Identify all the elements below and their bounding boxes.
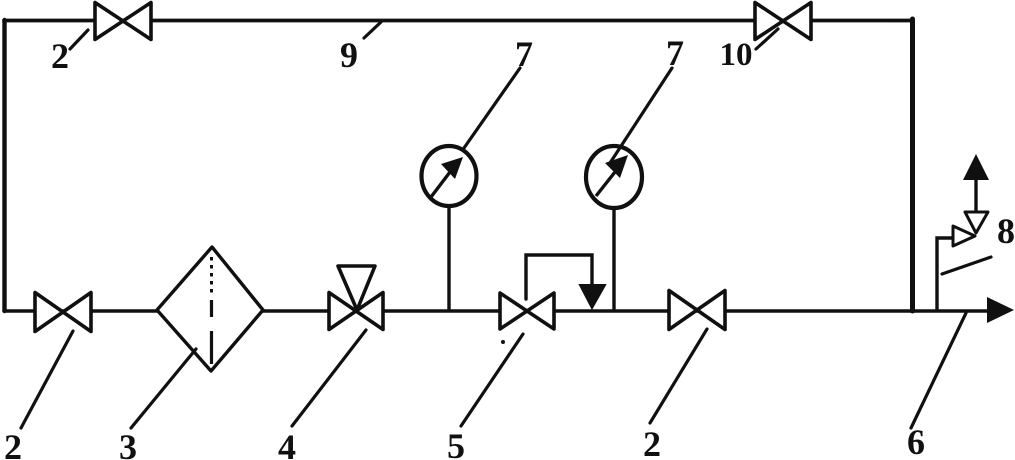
valve 4 (three-way with top triangle) xyxy=(329,266,383,330)
wire: bottom pipe xyxy=(4,309,990,312)
svg-text:9: 9 xyxy=(340,35,358,75)
valve 2 (bottom left) xyxy=(35,293,91,332)
vent outlet arrow (filled, up) xyxy=(963,154,989,180)
leader for label 7a xyxy=(464,68,520,148)
wire: gauge 7a drop line xyxy=(447,206,450,309)
wire: riser to relief vent 8 xyxy=(937,238,953,309)
svg-text:2: 2 xyxy=(51,36,69,76)
leader for label 9 xyxy=(364,22,381,38)
leader for label 8 xyxy=(942,257,991,274)
leader for label 2 bottom-left xyxy=(21,331,73,428)
leader for label 10 xyxy=(756,29,778,49)
wire: gauge 7b drop line xyxy=(612,208,615,309)
wire: top pipe 9 xyxy=(4,19,910,23)
svg-text:4: 4 xyxy=(278,427,296,460)
leader for label 3 xyxy=(131,349,196,428)
leader for label 5 xyxy=(461,334,523,426)
wire: left vertical pipe xyxy=(2,20,6,311)
leader for label 6 xyxy=(911,313,966,428)
outlet arrow 6 (filled, right) xyxy=(987,297,1014,323)
svg-text:7: 7 xyxy=(666,33,684,73)
bypass arrow into pipe xyxy=(580,285,605,308)
valve 2 (bottom right) xyxy=(669,291,725,330)
valve 5 xyxy=(500,293,554,329)
wire: right vertical pipe xyxy=(910,19,915,311)
wire: bypass loop over valve 5 xyxy=(526,255,592,299)
svg-text:3: 3 xyxy=(119,427,137,460)
gauge 7a (pressure gauge) xyxy=(422,146,477,206)
leader for label 4 xyxy=(292,330,366,426)
leader for label 7b xyxy=(610,68,672,163)
valve 2 (top left) xyxy=(95,3,151,40)
svg-text:6: 6 xyxy=(907,422,925,460)
svg-text:2: 2 xyxy=(643,424,661,460)
svg-text:7: 7 xyxy=(515,34,533,74)
svg-text:10: 10 xyxy=(720,37,753,73)
leader for label 2 bottom-right xyxy=(650,329,707,423)
svg-text:2: 2 xyxy=(4,427,22,460)
svg-text:8: 8 xyxy=(997,211,1015,251)
valve 10 (top right) xyxy=(755,3,811,40)
wire: vent stem xyxy=(974,179,977,212)
svg-text:5: 5 xyxy=(447,426,465,460)
leader for label 2 top-left xyxy=(70,30,88,49)
relief vent 8 (angle valve with vent arrow) xyxy=(953,212,988,246)
gauge 7b (pressure gauge) xyxy=(586,146,642,208)
filter 3 (diamond) xyxy=(157,247,263,371)
